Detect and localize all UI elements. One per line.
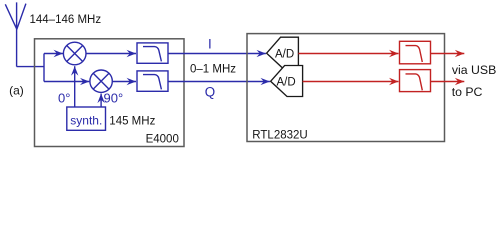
svg-text:synth.: synth. xyxy=(70,114,102,128)
low-pass filter LPF1 xyxy=(137,43,168,63)
svg-text:RTL2832U: RTL2832U xyxy=(252,129,307,141)
A/D converter ADC1 xyxy=(267,37,299,68)
wire to mixer M1 xyxy=(44,53,63,55)
svg-text:145 MHz: 145 MHz xyxy=(109,116,155,128)
svg-text:90°: 90° xyxy=(104,91,124,106)
mixer M2 xyxy=(90,70,112,92)
svg-text:to PC: to PC xyxy=(452,85,483,99)
red output wire 1 (USB) xyxy=(431,53,465,55)
svg-text:0°: 0° xyxy=(58,91,70,106)
mixer M1 xyxy=(63,42,86,65)
synthesizer box xyxy=(67,107,106,130)
svg-text:E4000: E4000 xyxy=(146,133,179,145)
svg-text:I: I xyxy=(208,37,212,52)
svg-text:via USB: via USB xyxy=(452,63,496,77)
svg-text:0–1 MHz: 0–1 MHz xyxy=(190,64,236,76)
svg-text:144–146 MHz: 144–146 MHz xyxy=(30,14,102,26)
wire I: LPF1 to ADC1 xyxy=(168,53,266,55)
synth vertical wire to M2 (90 deg) xyxy=(100,94,102,107)
RTL2832U box xyxy=(247,34,445,142)
red output wire 2 (USB) xyxy=(431,81,465,83)
svg-text:A/D: A/D xyxy=(277,77,296,89)
wire Q: LPF2 to ADC2 xyxy=(168,81,270,83)
svg-text:A/D: A/D xyxy=(275,48,294,60)
red wire ADC1 to DDC1 xyxy=(298,53,398,55)
svg-text:Q: Q xyxy=(205,85,215,100)
red wire ADC2 to DDC2 xyxy=(303,81,399,83)
low-pass filter LPF2 xyxy=(137,71,168,91)
synth vertical wire to M1 (0 deg) xyxy=(74,66,76,107)
digital filter DDC1 xyxy=(400,41,431,64)
wire antenna to splitter xyxy=(17,66,44,68)
E4000 box xyxy=(35,39,185,147)
node splitter vertical wire xyxy=(43,54,45,82)
wire M1 to LPF1 xyxy=(86,53,136,55)
A/D converter ADC2 xyxy=(271,66,303,97)
antenna xyxy=(5,2,26,66)
wire M2 to LPF2 xyxy=(112,81,136,83)
digital filter DDC2 xyxy=(400,70,431,92)
wire to mixer M2 xyxy=(44,81,89,83)
svg-text:(a): (a) xyxy=(9,84,24,98)
